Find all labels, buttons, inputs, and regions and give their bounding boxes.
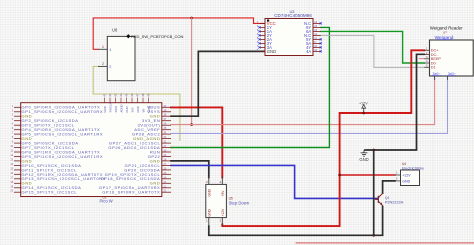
module U5 Step Down bbox=[206, 176, 250, 226]
svg-text:4: 4 bbox=[12, 118, 14, 121]
wire bottom GND horizontal U5 pin1 to Q1 emitter (black) bbox=[209, 207, 383, 236]
svg-text:U6: U6 bbox=[112, 28, 118, 33]
wire GP28 lavender to Wiegand bottom pin 7 bbox=[171, 76, 448, 133]
svg-text:+12V: +12V bbox=[402, 174, 411, 178]
svg-text:46: 46 bbox=[130, 93, 134, 97]
svg-text:CD74HC4050M96: CD74HC4050M96 bbox=[274, 13, 312, 18]
IC U1 Raspberry Pi Pico W bbox=[10, 93, 171, 203]
IC U3 CD74HC4050M96 bbox=[257, 10, 322, 56]
svg-text:2: 2 bbox=[257, 24, 259, 28]
svg-text:1: 1 bbox=[109, 48, 111, 52]
module Wiegand Reader bbox=[424, 26, 473, 81]
svg-text:13: 13 bbox=[10, 158, 13, 161]
svg-text:43: 43 bbox=[114, 93, 118, 97]
svg-text:1: 1 bbox=[12, 105, 14, 108]
junction dot GND bottom bbox=[372, 234, 375, 237]
svg-text:VB: VB bbox=[141, 109, 145, 113]
junction dot GND rail bbox=[372, 149, 375, 152]
wire salmon vertical branch x=191.6 bbox=[191, 18, 193, 125]
svg-text:GND: GND bbox=[402, 180, 410, 184]
power symbol +12V bbox=[359, 101, 368, 113]
svg-text:GP5_SPI0CSn_I2C0SCL_UART1RX: GP5_SPI0CSn_I2C0SCL_UART1RX bbox=[22, 132, 104, 137]
svg-text:RED_SW_PCBTOPCB_CON: RED_SW_PCBTOPCB_CON bbox=[131, 34, 183, 39]
svg-text:RUN: RUN bbox=[125, 106, 129, 112]
svg-text:1: 1 bbox=[102, 45, 104, 49]
svg-text:GND: GND bbox=[359, 157, 368, 162]
svg-text:3V3: 3V3 bbox=[130, 107, 134, 112]
svg-text:15: 15 bbox=[10, 167, 13, 170]
svg-text:18: 18 bbox=[10, 181, 13, 184]
svg-text:GP9_SPI1CSn_I2C0SCL_UART1RX: GP9_SPI1CSn_I2C0SCL_UART1RX bbox=[22, 154, 104, 159]
svg-text:8: 8 bbox=[12, 136, 14, 139]
wire Pico GP21 to Q1 base (blue) bbox=[171, 165, 378, 198]
wire Wiegand DC+ +12V rail (thick red) bbox=[222, 50, 424, 226]
wire U4 GND pin to Q1 collector (black) bbox=[383, 181, 395, 193]
svg-text:GP16_SPI0RX_UART0TX: GP16_SPI0RX_UART0TX bbox=[102, 190, 160, 195]
junction dot on red net at top bbox=[190, 17, 193, 20]
svg-text:AGND: AGND bbox=[119, 104, 123, 112]
wire Pico GND to U3 GND (black) bbox=[171, 51, 265, 116]
svg-text:GP1_SPI0CSn_I2C0SCL_UART0RX: GP1_SPI0CSn_I2C0SCL_UART0RX bbox=[22, 109, 104, 114]
transistor Q1 P2N2222A bbox=[375, 193, 404, 205]
connector U6 bbox=[98, 28, 135, 81]
power symbol GND bbox=[359, 150, 368, 162]
svg-text:ElectricStrike: ElectricStrike bbox=[402, 166, 424, 170]
svg-text:+5V: +5V bbox=[221, 190, 225, 197]
svg-text:+12V: +12V bbox=[359, 101, 368, 105]
svg-text:10: 10 bbox=[10, 145, 13, 148]
junction dot +12V symbol tap bbox=[362, 112, 365, 115]
svg-text:GND: GND bbox=[136, 106, 140, 112]
svg-text:4: 4 bbox=[219, 180, 221, 184]
wire Wiegand DC- to GND (black) bbox=[365, 54, 424, 150]
svg-text:9: 9 bbox=[12, 141, 14, 144]
wire bottom salmon rail bbox=[296, 242, 474, 244]
svg-text:+12V: +12V bbox=[221, 208, 225, 217]
svg-text:1: 1 bbox=[396, 171, 398, 175]
svg-text:GND: GND bbox=[208, 209, 212, 217]
svg-text:20: 20 bbox=[10, 190, 13, 193]
svg-text:45: 45 bbox=[125, 93, 129, 97]
wire olive: U6 pin2 down and right bbox=[93, 66, 180, 140]
wire +12V branch to U4 (red) bbox=[340, 174, 395, 176]
wire Pico GND to U5 GND pin3 (black) bbox=[171, 161, 209, 178]
wire VBUS to U5 +5V (thick red) bbox=[171, 107, 222, 177]
svg-text:U4: U4 bbox=[402, 162, 406, 166]
wire Wiegand BEEP stub (pink) bbox=[419, 58, 424, 60]
svg-text:14: 14 bbox=[10, 163, 13, 166]
svg-text:3: 3 bbox=[12, 114, 14, 117]
svg-text:1: 1 bbox=[206, 219, 208, 223]
svg-text:2: 2 bbox=[102, 62, 104, 66]
svg-text:49: 49 bbox=[147, 93, 151, 97]
svg-text:GND: GND bbox=[103, 106, 107, 112]
wire U3 to Wiegand D1 (grey) bbox=[321, 35, 424, 67]
svg-text:19: 19 bbox=[10, 185, 13, 188]
svg-text:6: 6 bbox=[12, 127, 14, 130]
junction dot salmon/3V3OUT bbox=[190, 123, 193, 126]
svg-text:2: 2 bbox=[109, 65, 111, 69]
svg-text:3: 3 bbox=[206, 180, 208, 184]
wire 3V3(OUT) salmon to Wiegand bottom pin 6 bbox=[171, 76, 435, 125]
svg-text:GP15_SPI1TX_I2C1SCL: GP15_SPI1TX_I2C1SCL bbox=[22, 190, 78, 195]
svg-text:Pico W: Pico W bbox=[100, 199, 113, 204]
junction dot +12V branch bbox=[338, 174, 341, 177]
svg-text:P2N2222A: P2N2222A bbox=[385, 200, 404, 204]
wire net RED_SW: U6 pin1 to U3 VCC (red) bbox=[93, 18, 265, 49]
svg-text:4A: 4A bbox=[306, 49, 311, 54]
svg-text:SWCLK: SWCLK bbox=[108, 102, 112, 112]
svg-text:12: 12 bbox=[10, 154, 13, 157]
wire U3 6Y to Pico GP26 (green) bbox=[171, 27, 329, 147]
module U4 ElectricStrike bbox=[395, 162, 425, 186]
svg-text:SWD: SWD bbox=[114, 106, 118, 113]
svg-text:U?: U? bbox=[443, 31, 447, 35]
svg-text:17: 17 bbox=[10, 176, 13, 179]
svg-text:7: 7 bbox=[12, 132, 14, 135]
svg-text:D1: D1 bbox=[431, 66, 436, 70]
svg-text:Step Down: Step Down bbox=[229, 201, 250, 206]
svg-text:44: 44 bbox=[119, 93, 123, 97]
wire GND vertical rail (black) bbox=[373, 150, 375, 235]
svg-text:41: 41 bbox=[103, 93, 107, 97]
svg-text:GP13_SPI1CSn_I2C0SCL_UART0RX: GP13_SPI1CSn_I2C0SCL_UART0RX bbox=[22, 176, 106, 181]
svg-text:16: 16 bbox=[10, 172, 13, 175]
label RED_SW_PCBTOPCB_CON bbox=[126, 34, 183, 39]
svg-text:5: 5 bbox=[12, 123, 14, 126]
svg-text:GND: GND bbox=[147, 106, 151, 112]
svg-text:2: 2 bbox=[219, 219, 221, 223]
svg-text:Weigand: Weigand bbox=[435, 35, 454, 41]
wire U3 6A to Wiegand D0 (green) bbox=[321, 31, 424, 63]
svg-text:2: 2 bbox=[12, 109, 14, 112]
svg-text:42: 42 bbox=[108, 93, 112, 97]
svg-text:GND: GND bbox=[267, 49, 276, 54]
svg-text:11: 11 bbox=[11, 150, 14, 153]
svg-text:48: 48 bbox=[141, 93, 145, 97]
svg-text:GND: GND bbox=[208, 189, 212, 197]
svg-text:47: 47 bbox=[136, 93, 140, 97]
svg-text:2: 2 bbox=[396, 177, 398, 181]
